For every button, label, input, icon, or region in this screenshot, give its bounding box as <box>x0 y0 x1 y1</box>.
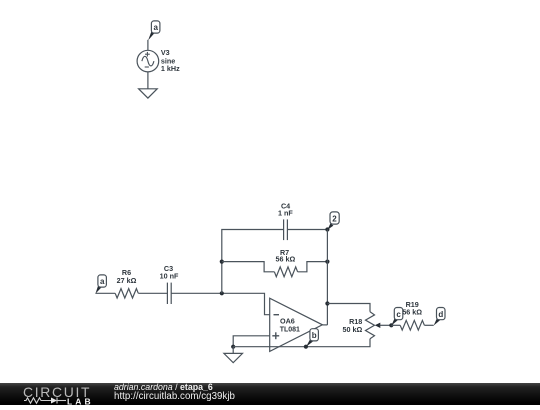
wire C4 to right vertical branch <box>287 229 327 231</box>
wire R6 to C3 <box>138 292 167 294</box>
wire R7 right lead to right vertical branch <box>298 262 328 272</box>
svg-text:LAB: LAB <box>67 396 94 405</box>
wire op-amp output to right vertical branch <box>322 324 327 326</box>
wire right vertical branch (node 2 down to output) <box>326 230 328 325</box>
svg-text:TL081: TL081 <box>280 326 300 333</box>
capacitor C4 1 nF <box>278 202 293 241</box>
wire node c to R19 <box>391 324 400 326</box>
svg-text:c: c <box>396 310 401 319</box>
svg-text:a: a <box>153 23 158 32</box>
svg-text:OA6: OA6 <box>280 317 295 326</box>
capacitor C3 10 nF <box>160 264 179 304</box>
svg-text:27 kΩ: 27 kΩ <box>117 276 137 285</box>
wire R7 branch left lead <box>222 262 275 272</box>
node c flag <box>391 308 402 326</box>
wire R19 to node d <box>424 324 433 326</box>
wire from node a to V3 top <box>147 40 149 51</box>
svg-text:a: a <box>100 277 105 286</box>
svg-text:b: b <box>312 331 317 340</box>
junction at node b tail on bottom rail <box>304 345 308 349</box>
wire op-amp plus input to bottom rail <box>233 336 270 347</box>
node a (left flag at input) <box>96 275 107 294</box>
node a (top flag at voltage source) <box>148 21 160 41</box>
resistor R7 56 kOhm <box>274 248 297 277</box>
wire from V3 bottom to ground <box>147 72 149 89</box>
bottom rail wire (ground junction to R18 bottom) <box>233 339 370 347</box>
CircuitLab logo <box>23 384 103 410</box>
node d flag <box>434 308 445 326</box>
wire R18 top branch <box>327 304 370 312</box>
credit text <box>114 383 235 401</box>
svg-text:50 kΩ: 50 kΩ <box>343 325 363 334</box>
ground (at op-amp plus input) <box>224 347 243 363</box>
junction at node c tail / wiper wire <box>389 323 393 327</box>
wire vertical feedback branch (junction up to C4 branch) <box>222 230 284 294</box>
svg-text:2: 2 <box>332 214 337 223</box>
wire node a to R6 <box>95 292 115 294</box>
wire C3 to junction and op-amp minus input <box>171 293 270 314</box>
node b flag <box>306 329 318 347</box>
svg-text:56 kΩ: 56 kΩ <box>402 308 422 317</box>
junction at R18 branch / right vertical <box>325 301 329 305</box>
svg-text:1 kHz: 1 kHz <box>161 64 180 73</box>
resistor R19 56 kOhm <box>400 300 424 330</box>
resistor R6 27 kOhm <box>115 268 138 298</box>
junction at plus input / ground / bottom rail <box>231 345 235 349</box>
junction at C4 branch / node 2 <box>325 227 329 231</box>
ground (below V3) <box>139 89 158 98</box>
svg-text:d: d <box>438 310 443 319</box>
svg-text:10 nF: 10 nF <box>160 272 179 281</box>
potentiometer R18 50 kOhm <box>343 312 392 339</box>
junction at main wire / vertical feedback branch <box>220 291 224 295</box>
svg-text:56 kΩ: 56 kΩ <box>276 255 296 264</box>
svg-text:1 nF: 1 nF <box>278 209 293 218</box>
node 2 flag <box>328 212 340 230</box>
junction at R7 branch left <box>220 260 224 264</box>
junction at R7 branch right <box>325 260 329 264</box>
voltage source V3 (sine, 1 kHz) <box>137 48 180 73</box>
footer bar <box>0 383 540 405</box>
op-amp OA6 TL081 <box>270 298 323 351</box>
